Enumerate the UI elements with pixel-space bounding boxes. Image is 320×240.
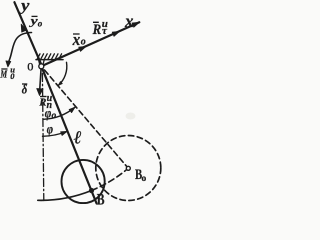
- svg-text:o: o: [52, 111, 57, 121]
- svg-text:x: x: [72, 30, 81, 49]
- svg-text:φ: φ: [45, 106, 52, 121]
- virtual displacement arrow (delta / Rn): [40, 70, 41, 91]
- angle arc at x-axis: [58, 62, 66, 85]
- point B0 marker: [126, 166, 130, 170]
- svg-text:M: M: [0, 69, 8, 81]
- svg-text:R: R: [92, 22, 101, 38]
- y-axis: [14, 2, 41, 64]
- moment M0 arc arrow: [9, 33, 32, 63]
- svg-text:y: y: [19, 0, 30, 15]
- svg-text:φ: φ: [47, 122, 53, 137]
- ball at B0 (dashed circle): [96, 136, 161, 201]
- svg-text:o: o: [81, 37, 86, 48]
- svg-text:0: 0: [10, 71, 15, 81]
- svg-text:B: B: [97, 192, 105, 207]
- initial position line O-B0 (dashed): [45, 70, 127, 166]
- x-axis: [44, 22, 140, 65]
- angle arc phi0: [43, 107, 75, 119]
- unit vector x0 arrowhead: [79, 46, 86, 51]
- svg-text:ℓ: ℓ: [74, 129, 82, 149]
- unit vector y0 arrowhead: [21, 24, 26, 32]
- pivot bracket legs: [39, 60, 40, 65]
- pendulum rod OB: [43, 69, 97, 203]
- x-axis end arrowhead: [132, 22, 139, 27]
- svg-text:o: o: [38, 19, 43, 29]
- point B dot: [89, 188, 93, 192]
- svg-text:O: O: [27, 61, 33, 73]
- ball at B (solid circle): [62, 160, 105, 203]
- reaction Rt arrowhead: [112, 31, 119, 36]
- pivot pin O: [39, 64, 44, 69]
- support hatching: [37, 54, 62, 60]
- svg-text:o: o: [142, 174, 147, 184]
- angle arc phi: [43, 131, 68, 136]
- vertical dash-dot reference line: [42, 74, 43, 201]
- trajectory arc right (dashed): [92, 168, 129, 190]
- svg-text:x: x: [124, 11, 134, 31]
- trajectory arc left (solid): [38, 191, 92, 201]
- support baseline: [36, 59, 63, 61]
